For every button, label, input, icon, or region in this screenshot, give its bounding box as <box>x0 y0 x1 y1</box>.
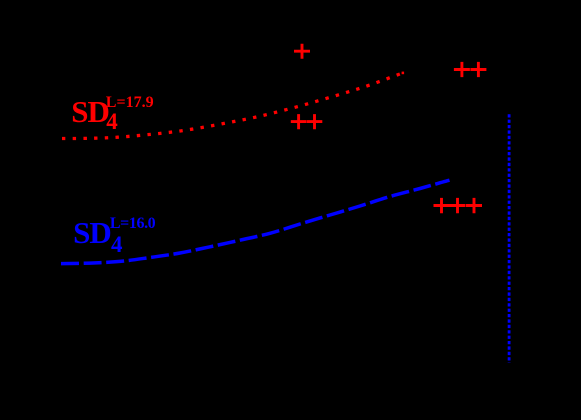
red dotted curve SD4 L=17.9 <box>62 72 406 139</box>
label superscript L=17.9 (red) <box>106 95 154 111</box>
red plus marker pair left <box>291 114 323 129</box>
red plus marker triple right <box>434 198 483 213</box>
label SD (red) <box>71 96 109 127</box>
blue dashed curve SD4 L=16.0 <box>61 180 450 263</box>
red plus marker single top <box>294 44 310 59</box>
blue vertical dotted line <box>508 114 511 363</box>
label superscript L=16.0 (blue) <box>110 216 155 232</box>
label SD (blue) <box>73 217 111 248</box>
label subscript 4 (red) <box>106 110 118 133</box>
label subscript 4 (blue) <box>111 233 123 256</box>
red plus marker pair upper right <box>454 62 487 77</box>
red curve final small dot <box>402 72 405 75</box>
